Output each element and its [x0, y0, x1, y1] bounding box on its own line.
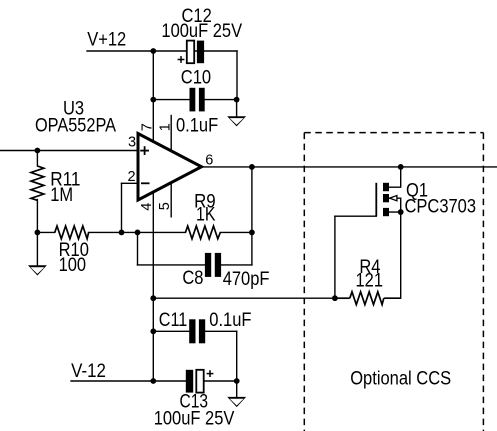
op-amp U3 triangle — [138, 134, 202, 201]
svg-text:0.1uF: 0.1uF — [209, 310, 251, 331]
svg-text:7: 7 — [140, 123, 156, 131]
wire C8 left drop — [137, 232, 139, 265]
wire bottom rail to R4 — [153, 297, 335, 299]
svg-text:V+12: V+12 — [87, 30, 126, 51]
node C13 right junction — [234, 378, 240, 384]
node V- rail top junction — [150, 295, 156, 301]
wire supply vertical to pin 7 — [152, 51, 154, 142]
wire negative supply vertical — [152, 298, 154, 381]
wire V+12 rail — [87, 50, 237, 52]
svg-text:C8: C8 — [182, 268, 203, 289]
Q1 gate lead vertical — [334, 216, 336, 298]
wire ground stem top right — [236, 100, 238, 117]
capacitor C12 — [178, 41, 204, 64]
wire R11 top lead — [36, 151, 38, 167]
wire output pin 6 — [203, 166, 497, 168]
wire C11 right drop — [236, 331, 238, 381]
wire input to pin 3 — [0, 150, 137, 152]
Q1 gate lead — [335, 215, 376, 217]
wire V-12 rail right segment — [204, 380, 237, 382]
wire C10 rail right segment — [205, 99, 237, 101]
capacitor C13 — [186, 370, 214, 393]
wire C10 rail left segment — [153, 99, 189, 101]
svg-text:1: 1 — [158, 123, 174, 131]
node gate / R4 junction — [332, 295, 338, 301]
svg-text:Optional CCS: Optional CCS — [350, 368, 451, 389]
svg-text:121: 121 — [356, 271, 384, 292]
wire feedback rail segment 1 — [37, 231, 54, 233]
svg-text:1K: 1K — [196, 205, 216, 226]
Q1 source vertical to R4 — [400, 212, 402, 298]
node output / drain junction — [398, 164, 404, 170]
Q1 channel bar middle — [383, 194, 389, 202]
wire pin 4 vertical — [152, 192, 154, 298]
op-amp minus input marker — [141, 182, 150, 184]
wire C8 rail left segment — [138, 264, 205, 266]
node C11 left junction — [150, 328, 156, 334]
node C10 rail left junction — [150, 97, 156, 103]
wire C8 rail right segment — [221, 264, 252, 266]
wire V+12 rail right drop — [236, 51, 238, 100]
optional CCS dashed box — [304, 133, 483, 431]
Q1 drain lead — [389, 167, 401, 187]
ground (top right, C10) — [227, 116, 246, 126]
svg-text:100: 100 — [59, 255, 87, 276]
wire feedback rail segment 2 — [89, 231, 186, 233]
wire pin 2 vertical — [121, 183, 123, 232]
svg-text:6: 6 — [205, 152, 213, 168]
node R11/R10 junction — [35, 230, 41, 236]
Q1 body lead — [389, 198, 400, 212]
wire pin 1 stub — [170, 116, 172, 152]
capacitor C10 — [190, 88, 205, 112]
resistor R4 — [335, 292, 401, 305]
node R9 right junction — [249, 230, 255, 236]
transistor Q1 — [375, 183, 377, 216]
node pin2 feedback junction — [119, 230, 125, 236]
node input junction — [35, 148, 41, 154]
resistor R11 — [31, 166, 44, 200]
wire feedback rail segment 3 — [220, 231, 252, 233]
svg-text:5: 5 — [157, 202, 173, 210]
Q1 gate bar — [375, 183, 377, 216]
node V-12 junction — [150, 378, 156, 384]
svg-text:C11: C11 — [159, 310, 188, 331]
wire output right vertical — [251, 167, 253, 265]
op-amp plus input marker — [140, 146, 149, 155]
Q1 channel bar bottom — [383, 208, 389, 216]
resistor R9 — [186, 226, 221, 239]
capacitor C8 — [205, 253, 221, 277]
Q1 body arrow — [390, 196, 397, 201]
node source / body junction — [398, 209, 404, 215]
node V+12 / supply junction — [150, 48, 156, 54]
svg-text:V-12: V-12 — [71, 361, 106, 382]
svg-text:2: 2 — [128, 169, 136, 185]
wire pin 2 lead — [122, 182, 138, 184]
wire V-12 rail left segment — [71, 380, 186, 382]
Q1 channel bar top — [383, 183, 389, 191]
svg-text:100uF 25V: 100uF 25V — [161, 21, 242, 42]
wire C11 rail right segment — [205, 330, 237, 332]
svg-text:0.1uF: 0.1uF — [176, 115, 218, 136]
svg-text:3: 3 — [128, 134, 136, 150]
wire C11 rail left segment — [153, 330, 189, 332]
ground (bottom right, C13) — [227, 397, 246, 407]
wire pin 5 stub — [170, 183, 172, 217]
Q1 source lead — [389, 211, 401, 213]
svg-text:C10: C10 — [181, 68, 211, 89]
wire ground stem left — [36, 232, 38, 265]
ground (left, R11/R10) — [28, 265, 47, 275]
svg-text:OPA552PA: OPA552PA — [35, 116, 116, 137]
capacitor C11 — [189, 319, 205, 343]
wire ground stem bottom right — [236, 381, 238, 397]
wire R11 bottom lead — [36, 200, 38, 233]
node output / feedback junction — [249, 164, 255, 170]
svg-text:470pF: 470pF — [223, 269, 270, 290]
svg-text:CPC3703: CPC3703 — [405, 197, 477, 218]
svg-text:1M: 1M — [50, 185, 73, 206]
svg-text:4: 4 — [139, 203, 155, 211]
resistor R10 — [55, 226, 89, 239]
svg-text:100uF 25V: 100uF 25V — [154, 409, 235, 430]
node C10 rail right junction — [234, 97, 240, 103]
node C8 left junction — [135, 230, 141, 236]
